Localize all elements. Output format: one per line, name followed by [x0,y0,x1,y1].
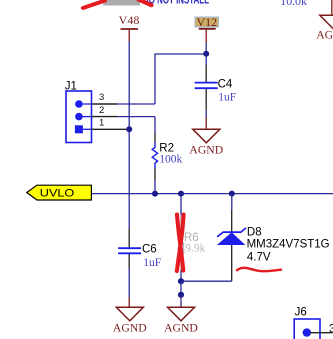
svg-text:3: 3 [329,321,333,335]
svg-text:UVLO: UVLO [40,188,75,200]
svg-text:3: 3 [99,92,104,103]
svg-text:AGND: AGND [164,322,198,335]
svg-text:10.0k: 10.0k [280,0,307,8]
svg-text:1uF: 1uF [218,92,236,104]
svg-text:AGND: AGND [189,143,223,156]
svg-text:4.7V: 4.7V [247,251,271,263]
svg-text:49.9k: 49.9k [180,243,206,255]
svg-text:V48: V48 [119,13,140,27]
svg-text:MM3Z4V7ST1G: MM3Z4V7ST1G [247,237,330,251]
svg-text:AGND: AGND [113,322,147,335]
svg-text:AGND: AGND [316,29,333,42]
svg-text:C6: C6 [142,243,157,255]
svg-text:V12: V12 [196,15,217,29]
svg-text:J6: J6 [295,306,307,318]
svg-text:1: 1 [99,118,104,129]
svg-text:100k: 100k [159,153,182,165]
svg-text:1uF: 1uF [143,257,161,269]
svg-text:C4: C4 [218,79,233,91]
svg-text:2: 2 [99,105,104,116]
